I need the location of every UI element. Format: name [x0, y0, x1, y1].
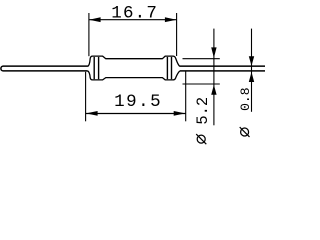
svg-text:5.2: 5.2 [194, 97, 212, 125]
svg-text:16.7: 16.7 [111, 3, 158, 23]
svg-text:0.8: 0.8 [238, 87, 253, 110]
svg-text:19.5: 19.5 [114, 92, 162, 112]
